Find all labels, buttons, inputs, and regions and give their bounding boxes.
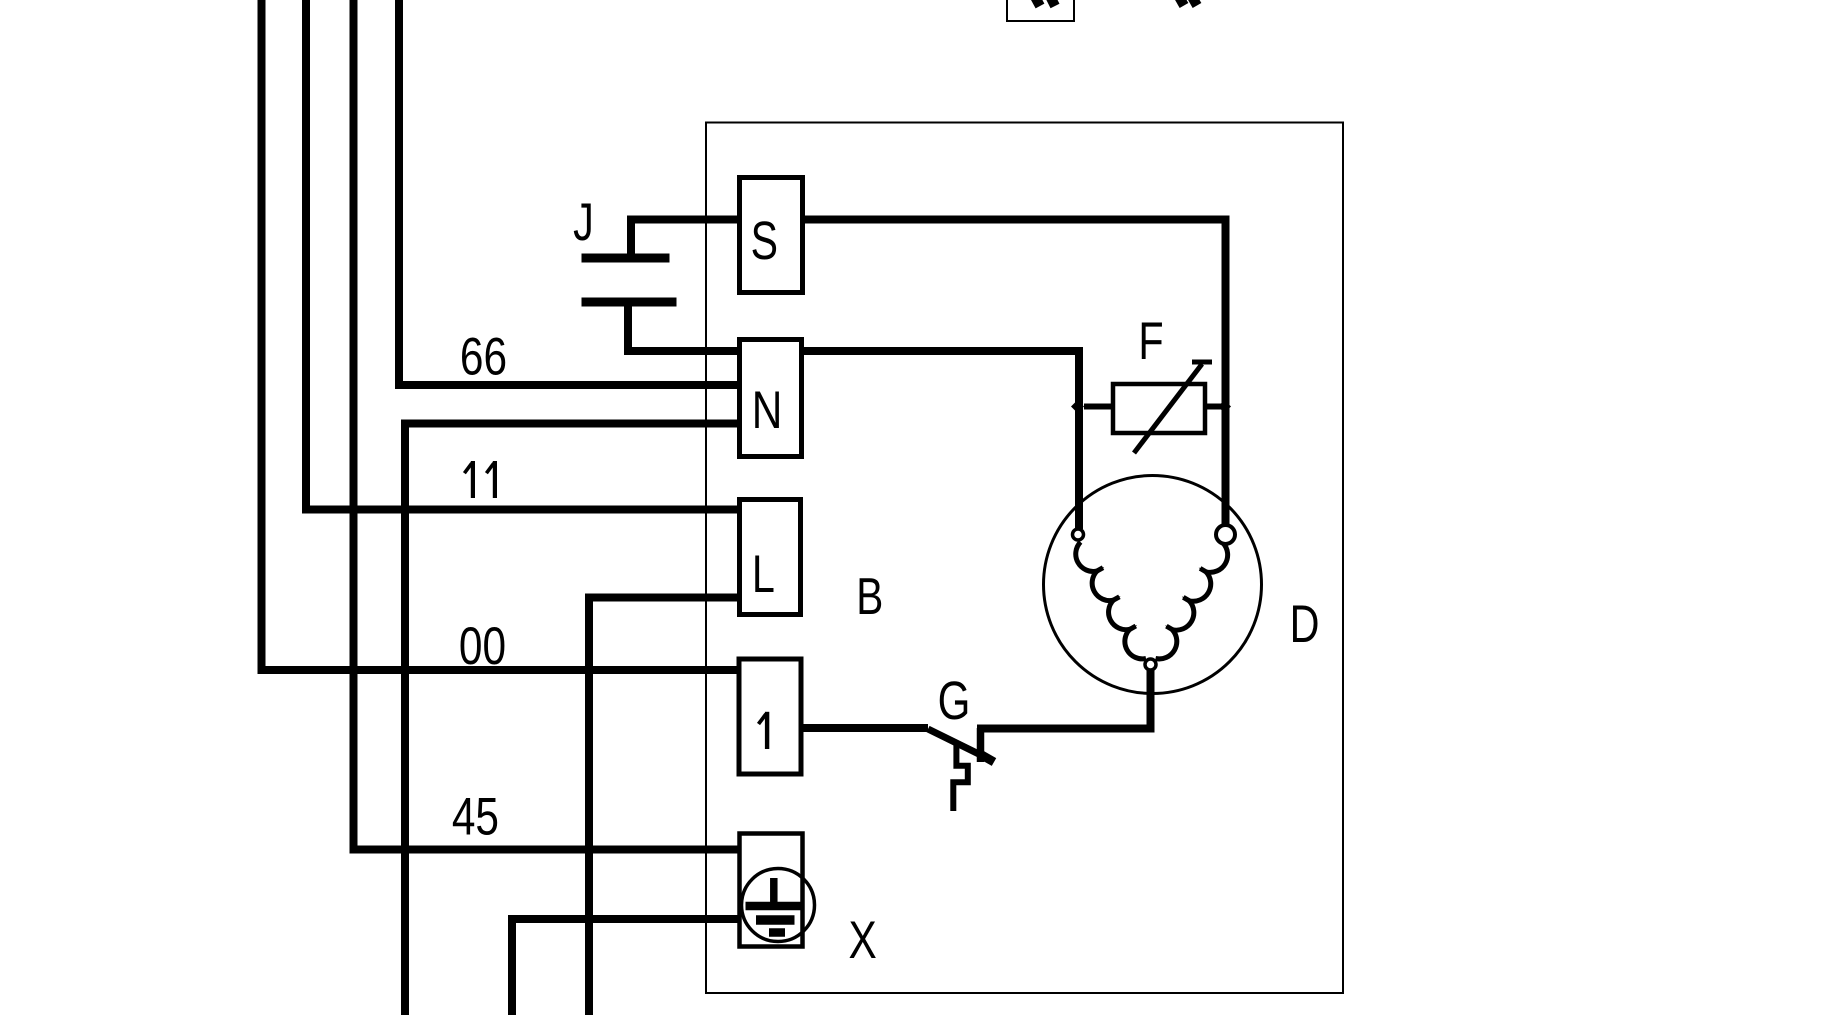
motor D left winding bbox=[1076, 542, 1146, 659]
motor D bottom terminal bbox=[1145, 659, 1156, 670]
wire from off page bottom to terminal X lower-left bbox=[512, 919, 745, 1015]
svg-text:S: S bbox=[751, 211, 778, 271]
thermal cutout F leads bbox=[1084, 404, 1113, 410]
earth symbol circle X bbox=[742, 869, 815, 942]
wire terminal 1 to switch G bbox=[803, 724, 928, 732]
svg-text:G: G bbox=[938, 671, 971, 731]
motor D stator circle bbox=[1044, 476, 1262, 694]
wire from terminal N lower-left, down off page bbox=[405, 424, 737, 1015]
thermal cutout F diagonal foot bbox=[1192, 360, 1212, 365]
thermal cutout F body bbox=[1113, 384, 1205, 433]
terminal S box bbox=[740, 178, 803, 293]
terminal N box bbox=[740, 340, 802, 457]
switch G blade bbox=[928, 729, 993, 761]
svg-text:L: L bbox=[752, 545, 775, 604]
capacitor J bottom plate bbox=[582, 298, 677, 307]
wire terminal N right to motor left terminal bbox=[804, 351, 1079, 529]
harness marks (cut off, top right) bbox=[1178, 0, 1197, 6]
thermal cutout F diagonal stroke bbox=[1134, 364, 1202, 453]
wire from terminal L lower-left, down off page bbox=[589, 598, 737, 1015]
switch G fixed contact bbox=[977, 728, 985, 762]
svg-text:66: 66 bbox=[460, 328, 507, 387]
appliance box B bbox=[706, 123, 1343, 994]
motor D left terminal bbox=[1073, 529, 1084, 540]
earth symbol stem bbox=[770, 878, 778, 906]
label 1 bbox=[759, 712, 768, 749]
capacitor J top plate bbox=[582, 254, 670, 263]
svg-text:X: X bbox=[848, 911, 876, 970]
connector symbol box (cut off at top) bbox=[1007, 0, 1074, 21]
earth symbol top bar bbox=[746, 902, 804, 911]
motor D winding cusp spurs bbox=[1097, 568, 1206, 630]
switch G actuator zigzag bbox=[953, 744, 968, 811]
wire switch G to motor bottom terminal bbox=[977, 668, 1151, 729]
wire terminal S right to motor right terminal bbox=[805, 220, 1226, 527]
svg-text:N: N bbox=[752, 381, 783, 440]
earth symbol bottom bar bbox=[769, 928, 785, 937]
motor D right winding bbox=[1156, 543, 1228, 659]
terminal 1 box bbox=[739, 659, 801, 774]
svg-text:45: 45 bbox=[452, 788, 499, 847]
svg-text:B: B bbox=[856, 568, 883, 626]
junction node left of F bbox=[1071, 400, 1084, 413]
wire capacitor J to terminal N bbox=[628, 304, 737, 351]
terminal L box bbox=[740, 500, 801, 615]
svg-text:D: D bbox=[1290, 595, 1320, 654]
wire 45 (vertical 3 + horizontal to terminal X) bbox=[354, 0, 742, 850]
svg-text:00: 00 bbox=[459, 617, 506, 676]
svg-text:J: J bbox=[573, 193, 594, 252]
wire terminal S to capacitor J bbox=[631, 220, 737, 257]
label 11 bbox=[464, 461, 495, 498]
junction node right of F bbox=[1218, 400, 1231, 413]
terminal X box bbox=[740, 834, 803, 947]
wire 00 (vertical 1 + horizontal to terminal 1) bbox=[262, 0, 738, 670]
wire 66 (vertical 4 + horizontal to terminal N) bbox=[399, 0, 737, 385]
wire 11 (vertical 2 + horizontal to terminal L) bbox=[306, 0, 737, 510]
svg-text:F: F bbox=[1138, 312, 1163, 371]
earth symbol middle bar bbox=[756, 915, 795, 925]
motor D right terminal bbox=[1216, 525, 1235, 544]
